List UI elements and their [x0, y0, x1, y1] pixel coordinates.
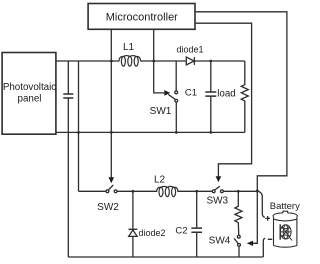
switch SW4 [237, 235, 240, 238]
plus sign [265, 216, 270, 221]
arrow SW2 control [109, 177, 115, 183]
arrow SW4 control [247, 241, 253, 246]
svg-text:C1: C1 [185, 88, 197, 99]
inductor L2 [157, 186, 178, 196]
inductor L1 [119, 56, 141, 67]
microcontroller box [88, 4, 195, 30]
svg-text:SW1: SW1 [150, 106, 172, 117]
diode D1 [186, 57, 194, 65]
diode D2 branch [132, 191, 134, 229]
svg-text:L1: L1 [123, 42, 135, 53]
wire battery minus [263, 238, 265, 257]
wire middle rail segment 4 [223, 190, 257, 192]
node C1 bottom [209, 131, 212, 134]
resistor load [241, 61, 248, 132]
wire bottom rail 2 [68, 256, 263, 258]
svg-text:diode2: diode2 [139, 228, 166, 238]
node right junction [256, 190, 259, 193]
photovoltaic panel box [2, 53, 56, 135]
svg-text:SW3: SW3 [206, 195, 228, 206]
svg-text:Battery: Battery [270, 201, 300, 212]
node top rail / control B [152, 60, 155, 63]
wire top rail right [141, 60, 245, 62]
node C2 top [195, 190, 198, 193]
wire middle rail segment 3 [178, 190, 212, 192]
node C1 top [209, 60, 212, 63]
svg-text:diode1: diode1 [176, 44, 203, 54]
node resistor branch [237, 190, 240, 193]
node top rail / control A [110, 60, 113, 63]
minus sign [268, 238, 272, 240]
capacitor Cin plates [63, 94, 73, 98]
switch SW1 [175, 61, 177, 91]
node SW1 bottom [175, 131, 178, 134]
wire input-cap branch [67, 61, 69, 257]
node boost tap bottom rail [77, 131, 80, 134]
svg-text:Microcontroller: Microcontroller [106, 11, 178, 23]
wire middle rail segment 1 [79, 190, 107, 192]
svg-text:load: load [217, 89, 236, 100]
capacitor C1 branch [210, 61, 212, 132]
node bottom rail / control A [110, 131, 113, 134]
wire microcontroller to SW2 control [110, 29, 112, 177]
svg-text:L2: L2 [154, 174, 166, 185]
wire microcontroller to SW1 control [154, 29, 165, 93]
svg-text:C2: C2 [175, 225, 187, 236]
wire top rail left [56, 60, 119, 62]
wire middle rail segment 2 [117, 190, 157, 192]
wire micro pin1 outer [195, 12, 287, 244]
battery body [273, 211, 298, 247]
capacitor C2 branch [196, 191, 198, 257]
switch SW2 [106, 190, 109, 193]
svg-text:panel: panel [18, 94, 42, 105]
resistor R branch [235, 191, 242, 235]
svg-text:Photovoltaic: Photovoltaic [3, 82, 56, 93]
arrow SW3 control [195, 23, 252, 176]
svg-text:SW4: SW4 [209, 235, 231, 246]
capacitor C2 plates [191, 228, 202, 232]
switch SW3 [212, 190, 215, 193]
node diode2 top [132, 190, 135, 193]
svg-text:SW2: SW2 [97, 202, 119, 213]
wire battery plus [257, 191, 265, 217]
capacitor C1 plates [205, 92, 216, 96]
battery emblem [280, 224, 292, 240]
wire boost tap branch [78, 61, 80, 191]
wire bottom rail [56, 131, 245, 133]
arrow SW1 control [164, 90, 170, 96]
